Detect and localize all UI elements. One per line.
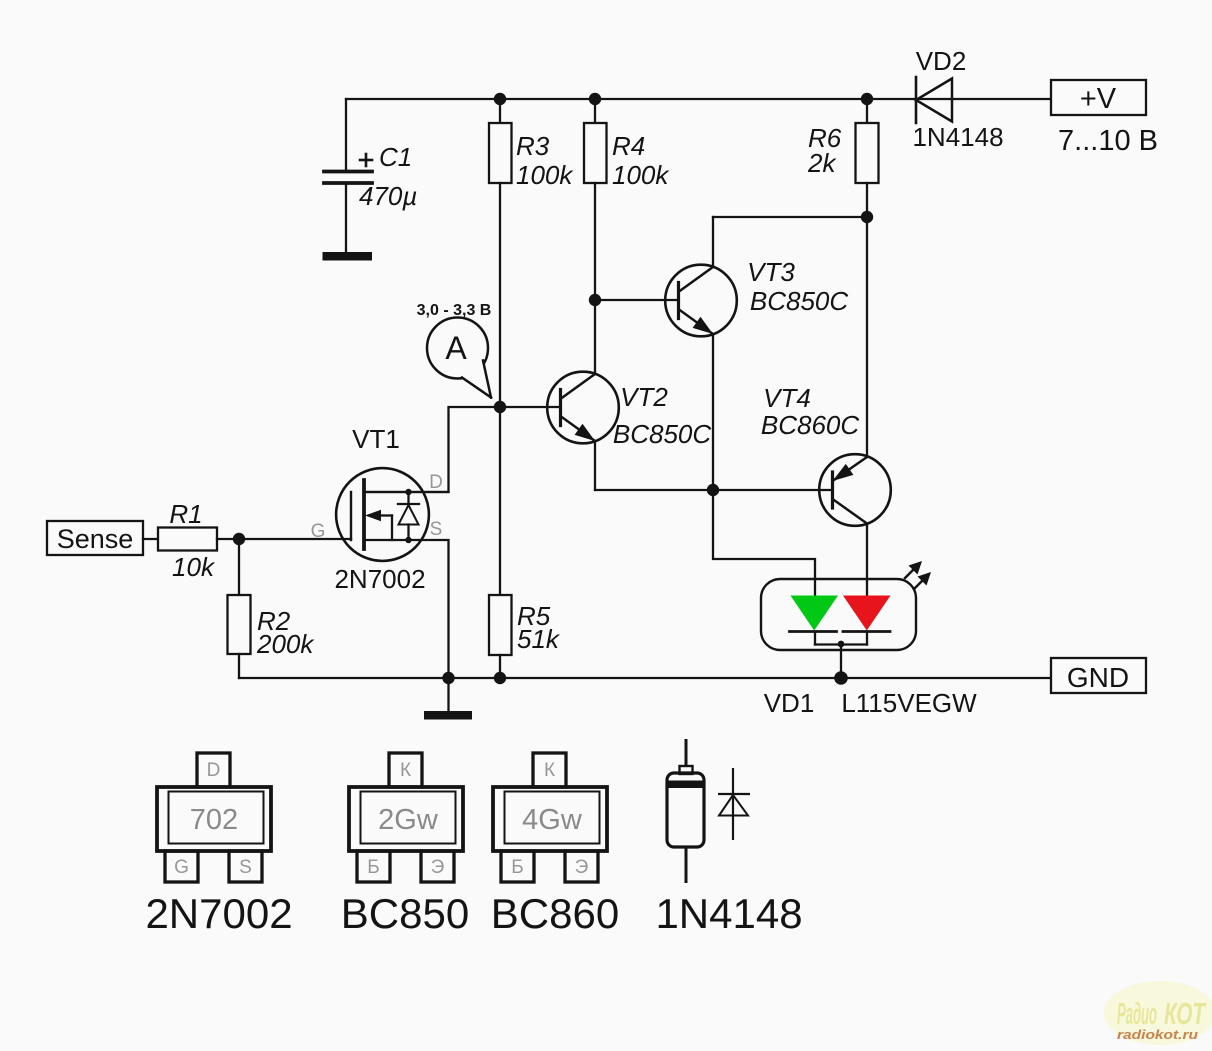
VT3 labels [747, 257, 848, 316]
ground (C1) [323, 252, 373, 261]
wire C1 bottom [345, 185, 347, 253]
transistor VT2 BC850C [500, 372, 619, 490]
+V labels [1058, 83, 1158, 157]
svg-text:G: G [311, 521, 326, 542]
ground (main) [424, 678, 472, 720]
svg-text:Э: Э [575, 857, 589, 878]
VD2 labels [912, 46, 1003, 152]
R4 labels [612, 131, 670, 190]
resistor R5 [489, 407, 512, 678]
svg-text:К: К [400, 760, 411, 781]
wire VT2 emitter to VT4 base [595, 489, 833, 491]
svg-text:BC850: BC850 [341, 890, 469, 937]
node junction top R3 [494, 93, 506, 105]
package drawing BC850 [349, 753, 463, 882]
svg-text:2N7002: 2N7002 [145, 890, 292, 937]
svg-text:GND: GND [1067, 662, 1129, 693]
wire C1 top [345, 99, 347, 170]
svg-text:BC850C: BC850C [613, 419, 711, 449]
node junction R6 bottom [861, 211, 873, 223]
VT2 labels [613, 382, 711, 449]
+V box [1051, 80, 1146, 115]
svg-text:100k: 100k [612, 160, 670, 190]
svg-text:D: D [429, 472, 443, 493]
svg-text:G: G [174, 857, 189, 878]
LED green element [790, 596, 839, 632]
svg-text:4Gw: 4Gw [522, 804, 583, 836]
watermark radiokot [1104, 981, 1212, 1045]
resistor R1 [158, 528, 217, 551]
package BC850 pin letters [367, 760, 444, 878]
node junction top R4 [589, 93, 601, 105]
package drawing 2N7002 [157, 753, 271, 882]
wire VT1 drain path [364, 407, 500, 492]
C1 value labels [359, 142, 417, 211]
wire bottom ground rail [239, 677, 1051, 679]
transistor VT1 2N7002 MOSFET [336, 468, 448, 561]
R3 labels [516, 131, 574, 190]
package drawing BC860 [493, 753, 607, 882]
transistor VT3 BC850C [595, 217, 737, 490]
svg-text:2k: 2k [807, 148, 837, 178]
svg-text:BC850C: BC850C [750, 286, 848, 316]
Sense box [47, 521, 143, 555]
svg-text:3,0 - 3,3 В: 3,0 - 3,3 В [417, 302, 492, 319]
wire R6 junction down to VT4 emitter [866, 217, 868, 457]
node junction A / R3 / VT1 drain [494, 401, 506, 413]
svg-text:Э: Э [431, 857, 445, 878]
svg-text:VT1: VT1 [352, 424, 400, 454]
resistor R4 [584, 99, 607, 300]
svg-text:2N7002: 2N7002 [334, 564, 425, 594]
wire Sense to R1 [143, 538, 158, 540]
svg-text:2Gw: 2Gw [378, 804, 439, 836]
svg-text:VT2: VT2 [620, 382, 668, 412]
svg-text:1N4148: 1N4148 [912, 122, 1003, 152]
svg-text:VT4: VT4 [763, 383, 811, 413]
svg-text:A: A [445, 330, 467, 366]
svg-text:Б: Б [367, 857, 379, 878]
R5 labels [517, 601, 561, 654]
VT4 labels [761, 383, 859, 440]
diode VD2 [916, 77, 952, 123]
R1 labels [169, 499, 216, 582]
LED VD1 package [761, 579, 916, 650]
VT1 pin letters [311, 472, 443, 542]
wire VT3 collector rail [713, 216, 867, 218]
LED red element [843, 596, 891, 632]
wire green LED branch [713, 490, 815, 597]
svg-text:R3: R3 [516, 131, 550, 161]
wire VT1 source path [364, 540, 449, 678]
svg-text:Sense: Sense [57, 524, 134, 554]
resistor R6 [856, 99, 879, 217]
resistor R2 [228, 539, 251, 678]
svg-text:Б: Б [511, 857, 523, 878]
svg-text:1N4148: 1N4148 [655, 890, 802, 937]
svg-text:КОТ: КОТ [1164, 996, 1207, 1031]
svg-text:+V: +V [1080, 83, 1117, 115]
svg-text:S: S [430, 519, 443, 540]
node junction VT3 emitter [707, 484, 719, 496]
svg-text:470µ: 470µ [359, 181, 417, 211]
svg-text:VT3: VT3 [747, 257, 795, 287]
svg-text:К: К [544, 760, 555, 781]
R6 labels [807, 123, 842, 178]
node junction top R6 [861, 93, 873, 105]
svg-text:VD1: VD1 [764, 688, 815, 718]
node junction R5 bottom [494, 672, 506, 684]
wire top supply rail [346, 98, 1051, 100]
capacitor C1 [324, 154, 372, 183]
svg-text:S: S [239, 857, 252, 878]
svg-text:702: 702 [190, 804, 238, 836]
svg-text:Радио: Радио [1117, 996, 1157, 1031]
node junction R4 bottom / VT3 base [589, 294, 601, 306]
callout node A bubble [427, 318, 491, 398]
svg-text:10k: 10k [172, 552, 216, 582]
VD1 labels [764, 688, 977, 718]
node junction source/ground [442, 672, 454, 684]
svg-text:BC860: BC860 [491, 890, 619, 937]
R2 labels [256, 606, 315, 659]
LED light arrows [905, 561, 931, 589]
LED cathode join wires [815, 632, 867, 678]
svg-text:200k: 200k [256, 629, 315, 659]
package BC860 pin letters [511, 760, 588, 878]
transistor VT4 BC860C [819, 454, 891, 596]
svg-text:100k: 100k [516, 160, 574, 190]
package 2N7002 pin letters [174, 760, 252, 878]
GND box [1051, 658, 1146, 693]
svg-text:L115VEGW: L115VEGW [841, 688, 977, 718]
node junction R1/R2 [233, 533, 245, 545]
svg-text:51k: 51k [517, 624, 561, 654]
wire R4 junction to VT2 collector [594, 300, 596, 374]
svg-text:radiokot.ru: radiokot.ru [1117, 1027, 1198, 1042]
VT1 labels [334, 424, 425, 594]
resistor R3 [489, 99, 512, 407]
svg-text:R4: R4 [612, 131, 645, 161]
package drawing 1N4148 [667, 739, 750, 883]
svg-text:BC860C: BC860C [761, 410, 859, 440]
svg-text:R1: R1 [169, 499, 202, 529]
wire R1 to VT1 gate [217, 538, 351, 540]
svg-text:VD2: VD2 [916, 46, 967, 76]
node junction LED cathode / ground rail [834, 671, 848, 685]
svg-text:C1: C1 [379, 142, 412, 172]
svg-text:7...10 В: 7...10 В [1058, 125, 1158, 157]
svg-text:D: D [207, 760, 221, 781]
